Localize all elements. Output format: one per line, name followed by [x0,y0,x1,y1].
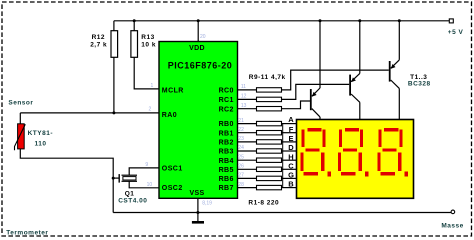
svg-text:2,7 k: 2,7 k [90,41,107,48]
svg-text:VDD: VDD [189,45,205,52]
display pin tab border [282,124,284,188]
sensor KTY81-110 body [18,124,25,149]
resistor R10 [257,97,282,101]
sensor diagonal mark [15,124,26,150]
resistor R9 [257,88,282,92]
wire sensor bottom to ground rail [20,149,113,213]
svg-text:B: B [288,180,294,189]
wire VSS down [197,198,199,221]
display segment letters [288,115,294,189]
transistor T1 bar [310,89,312,110]
svg-text:VSS: VSS [190,190,205,197]
resistor R11 [257,107,282,111]
svg-text:Sensor: Sensor [8,99,33,106]
svg-text:+5 V: +5 V [448,29,464,36]
transistor T3 emitter arrow [391,64,396,69]
svg-text:24: 24 [238,145,244,151]
svg-text:RC0: RC0 [219,88,234,95]
wire OSC2 [129,181,159,188]
wire R11 to T1 base [282,101,311,109]
svg-text:RB6: RB6 [219,176,234,183]
svg-text:11: 11 [241,84,246,90]
wire R9 to T3 base [282,70,389,90]
IC pin names RB0-RB7 [219,121,234,192]
display digit 2 [338,128,369,177]
wire +5V top rail [114,20,450,22]
svg-text:RB1: RB1 [219,130,234,137]
wire T2 emitter drop [359,21,361,74]
pin numbers [145,34,246,206]
svg-text:R1-8 220: R1-8 220 [248,199,279,206]
wire T3 collector to display [398,88,400,119]
svg-text:H: H [288,152,293,161]
wire RC1 row to R10 [238,98,257,100]
wire sensor top lead [19,113,21,124]
wire R13 bottom to MCLR [134,57,159,89]
resistor R13 [131,31,138,58]
svg-text:D: D [288,143,294,152]
resistor R12 [111,31,118,58]
transistor T2 emitter arrow [351,77,356,82]
wire T2 collector to display [359,102,361,119]
ground symbol [192,221,204,224]
wire VDD drop [197,21,199,42]
transistor T1 emitter [312,88,320,96]
wire RC0 row to R9 [238,89,257,91]
svg-text:RC1: RC1 [219,97,234,104]
svg-text:8,19: 8,19 [202,200,212,206]
svg-text:R13: R13 [141,34,154,41]
terminal +5V [449,19,453,23]
svg-text:OSC1: OSC1 [162,166,183,173]
svg-text:RB0: RB0 [219,121,234,128]
wire sensor node to RA0 [20,112,159,114]
svg-text:1: 1 [151,83,154,89]
svg-text:F: F [289,125,294,134]
crystal Q1 plates [122,174,138,176]
svg-text:RB7: RB7 [219,185,234,192]
svg-text:RC2: RC2 [219,106,234,113]
wire T3 emitter drop [398,21,400,60]
wire T1 collector to display [319,117,321,120]
svg-text:10: 10 [147,182,153,188]
svg-text:KTY81-: KTY81- [28,130,53,137]
svg-text:2: 2 [149,107,152,113]
wire OSC1 [129,168,159,175]
svg-text:R9-11 4,7k: R9-11 4,7k [249,74,286,81]
svg-text:CST4.00: CST4.00 [118,197,147,204]
wires RB0-RB7 rows to R1-8 and display [238,124,297,188]
svg-text:21: 21 [238,118,244,124]
svg-text:A: A [288,115,294,124]
svg-text:25: 25 [238,154,244,160]
wire R12 top [113,21,115,31]
display digit 1 [301,128,332,177]
svg-text:20: 20 [200,34,206,40]
crystal Q1 left electrode [118,174,120,183]
wire RC2 row to R11 [238,108,257,110]
crystal Q1 body box [123,177,136,180]
terminal Masse [451,210,455,214]
svg-text:110: 110 [35,141,47,148]
svg-text:Masse: Masse [441,222,463,229]
svg-text:G: G [288,171,294,180]
svg-text:C: C [288,161,294,170]
transistor T3 emitter [391,60,400,68]
display body [297,120,414,199]
svg-text:RB4: RB4 [219,158,234,165]
svg-text:Termometer: Termometer [6,230,48,237]
transistor T2 emitter [351,73,360,81]
svg-text:RB3: RB3 [219,149,234,156]
svg-text:OSC2: OSC2 [162,185,183,192]
transistor T3 collector [391,80,400,88]
svg-text:10 k: 10 k [141,41,156,48]
transistor T2 collector [351,94,360,102]
transistor T1 collector [312,109,320,117]
transistor T3 bar [389,61,391,82]
wire R10 to T2 base [282,84,350,99]
svg-text:9: 9 [145,162,148,168]
transistor T1 emitter arrow [312,92,317,97]
resistors R1-R8 [257,121,282,189]
svg-text:E: E [288,134,293,143]
svg-text:26: 26 [238,164,244,170]
wire crystal ground stub [113,177,118,179]
svg-text:RB2: RB2 [219,140,234,147]
svg-text:R12: R12 [92,34,105,41]
transistor T2 bar [349,75,351,96]
svg-text:PIC16F876-20: PIC16F876-20 [168,60,233,70]
wire R12 bottom [113,57,115,113]
wire ground rail bottom [113,212,451,214]
svg-text:RB5: RB5 [219,167,234,174]
IC U1 PIC16F876-20 body [159,42,238,199]
wire T1 emitter drop [319,21,321,88]
svg-text:12: 12 [241,94,247,100]
svg-text:MCLR: MCLR [162,88,184,95]
svg-text:BC328: BC328 [408,80,431,87]
display digit 3 [377,128,408,177]
svg-text:13: 13 [241,103,247,109]
svg-text:22: 22 [238,127,244,133]
svg-text:RA0: RA0 [162,112,177,119]
svg-text:23: 23 [238,136,244,142]
svg-text:28: 28 [238,182,244,188]
svg-text:27: 27 [238,173,244,179]
wire R13 top [133,21,135,31]
